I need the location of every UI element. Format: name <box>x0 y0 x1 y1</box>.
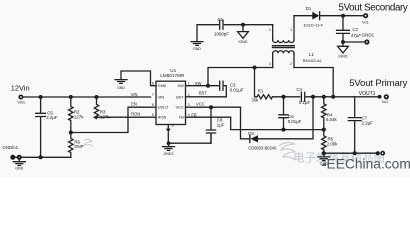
wire GND1 <box>343 41 364 43</box>
wire RTN pin 8 to ground <box>121 71 156 86</box>
svg-text:C4: C4 <box>296 87 302 92</box>
svg-text:CD0603-B0240: CD0603-B0240 <box>248 145 277 150</box>
watermark logo swirl <box>279 142 295 160</box>
capacitor C4 <box>296 87 310 105</box>
wire EN to UVLO pin <box>71 107 151 132</box>
watermark dark EEChina.com <box>321 162 326 166</box>
svg-text:4: 4 <box>269 28 271 32</box>
svg-text:VCC: VCC <box>176 105 184 110</box>
ground GND2 under chip <box>163 143 175 156</box>
svg-text:IGND: IGND <box>339 54 348 58</box>
wire UVLO stub <box>151 106 157 108</box>
terminal GND1 <box>362 32 375 44</box>
svg-text:1µF: 1µF <box>217 122 225 127</box>
svg-text:BST: BST <box>199 91 207 96</box>
svg-text:3: 3 <box>269 62 271 66</box>
diode D2 <box>248 97 313 151</box>
node junction C7 bottom <box>353 151 357 155</box>
ground GND at pin 8 <box>115 80 127 90</box>
capacitor C8 <box>206 107 224 143</box>
wire thermal pad pin 9 to ground <box>168 125 211 144</box>
svg-text:0.01µF: 0.01µF <box>288 119 302 124</box>
svg-text:2.2µF: 2.2µF <box>46 115 58 120</box>
ground IGND under C2 <box>338 42 349 58</box>
svg-text:DNP: DNP <box>74 144 83 149</box>
ground GND primary output <box>318 153 330 166</box>
resistor R4 <box>322 97 338 130</box>
svg-text:1000pF: 1000pF <box>214 32 229 37</box>
svg-text:RA04Z2-AL: RA04Z2-AL <box>303 59 322 63</box>
svg-text:2.2µF: 2.2µF <box>362 120 374 125</box>
svg-text:Vo1: Vo1 <box>362 20 370 25</box>
svg-text:2.00k: 2.00k <box>327 142 339 147</box>
capacitor C6 <box>279 97 302 130</box>
svg-text:BST: BST <box>176 94 184 99</box>
svg-text:GND2: GND2 <box>164 152 174 156</box>
svg-text:47µF: 47µF <box>351 33 361 38</box>
svg-text:LM5017MR: LM5017MR <box>160 73 185 78</box>
ground IGND top <box>238 25 249 44</box>
capacitor C1 <box>214 17 229 37</box>
capacitor C7 <box>348 97 373 153</box>
svg-text:VOUT1: VOUT1 <box>359 91 376 97</box>
svg-text:GND: GND <box>117 86 125 90</box>
node junction R3 tap <box>95 95 99 99</box>
svg-text:RON: RON <box>158 115 167 120</box>
svg-text:5Vout Secondary: 5Vout Secondary <box>339 2 408 13</box>
svg-text:IGND: IGND <box>239 40 248 44</box>
capacitor C3 bootstrap <box>208 81 244 97</box>
wire VIN rail <box>23 96 150 98</box>
node junction R5/GND <box>322 151 326 155</box>
svg-text:ES1D-13-F: ES1D-13-F <box>304 22 324 27</box>
diode D1 <box>294 6 363 28</box>
svg-text:C1: C1 <box>218 17 224 22</box>
svg-text:VCC: VCC <box>196 102 205 107</box>
node junction primary riser <box>331 95 335 99</box>
node junction C6/FB <box>282 128 286 132</box>
svg-text:0.01µF: 0.01µF <box>230 87 244 92</box>
node junction D1/C2 <box>341 14 345 18</box>
svg-text:5Vout Primary: 5Vout Primary <box>349 78 407 89</box>
svg-text:VIN: VIN <box>131 92 138 97</box>
svg-text:2: 2 <box>290 62 292 66</box>
wire ripple injection run <box>255 68 380 97</box>
node junction rail end <box>376 151 380 155</box>
node junction R4 top <box>322 95 326 99</box>
node junction VCC/C8 <box>209 105 213 109</box>
resistor R6 DNP <box>69 133 84 158</box>
node junction pad ground <box>167 141 171 145</box>
svg-text:GND: GND <box>193 47 201 51</box>
terminal GND2 output <box>380 151 385 156</box>
terminal Vo1 <box>362 13 370 24</box>
node junction FB divider <box>322 128 326 132</box>
svg-text:C2: C2 <box>352 27 358 32</box>
svg-text:L1: L1 <box>309 52 315 57</box>
svg-text:GND: GND <box>158 83 167 88</box>
resistor R2 <box>69 97 85 133</box>
node junction C5 bottom <box>39 155 43 159</box>
svg-text:7: 7 <box>152 93 154 97</box>
terminal GNDin1 <box>2 145 21 160</box>
resistor R5 <box>322 130 339 154</box>
node junction D2 anode riser <box>311 95 315 99</box>
wire interwinding top rail <box>197 25 273 42</box>
node junction R1/C4/C6 <box>282 95 286 99</box>
svg-text:SW: SW <box>178 83 185 88</box>
svg-text:Vin1: Vin1 <box>17 100 26 105</box>
svg-text:12Vin: 12Vin <box>11 83 30 92</box>
wire SW net to transformer <box>186 68 273 86</box>
node junction SW/C3 <box>206 84 210 88</box>
svg-text:GND: GND <box>15 166 23 170</box>
svg-text:9: 9 <box>172 124 174 128</box>
wire RON stub <box>151 116 157 118</box>
node junction C5 tap <box>39 95 43 99</box>
svg-text:GND1: GND1 <box>362 32 375 37</box>
svg-text:RON: RON <box>131 112 140 117</box>
wire transformer primary to VOUT <box>294 68 333 97</box>
capacitor C5 <box>36 97 58 157</box>
svg-text:D1: D1 <box>306 6 312 11</box>
wire BST <box>186 96 227 98</box>
terminal Vo2 <box>382 94 390 104</box>
svg-text:EN: EN <box>131 102 137 107</box>
node junction C1/IGND <box>241 23 245 27</box>
watermark swirl small <box>84 139 93 146</box>
capacitor C2 <box>337 16 362 42</box>
wire GND input rail <box>13 156 71 158</box>
wire primary ground rail <box>324 152 378 154</box>
svg-text:D2: D2 <box>248 131 254 136</box>
svg-text:R1: R1 <box>258 89 264 94</box>
svg-text:Vo2: Vo2 <box>382 99 390 104</box>
node junction C2/IGND/GND1 <box>341 40 345 44</box>
svg-text:1: 1 <box>290 28 292 32</box>
svg-text:6.04k: 6.04k <box>326 117 338 122</box>
wire FB net <box>186 117 325 129</box>
resistor R1 <box>251 89 272 103</box>
svg-text:30k: 30k <box>251 97 259 102</box>
resistor R3 <box>94 97 150 119</box>
svg-text:UVLO: UVLO <box>158 105 169 110</box>
transformer L1 coupled inductor <box>269 16 322 68</box>
node junction SW/ripple tap <box>253 66 257 70</box>
svg-text:VIN: VIN <box>158 94 165 99</box>
wire VCC to D2 <box>186 107 250 139</box>
pad arrow <box>166 129 171 133</box>
op-amp U1 LM5017MR chip body <box>156 68 186 125</box>
svg-text:GNDin1: GNDin1 <box>2 145 18 150</box>
ground GND bottom-left <box>13 160 25 171</box>
svg-text:0.1µF: 0.1µF <box>299 100 311 105</box>
svg-text:127k: 127k <box>100 114 110 119</box>
terminal Vin1 <box>17 95 26 105</box>
node junction R2 tap <box>69 95 73 99</box>
ground GND top-left <box>191 42 203 51</box>
node junction VOUT1 <box>378 95 382 99</box>
svg-text:FB: FB <box>179 115 184 120</box>
svg-text:127k: 127k <box>74 114 84 119</box>
svg-text:EEChina.com: EEChina.com <box>327 157 410 172</box>
node junction R2/R6/EN <box>69 131 73 135</box>
